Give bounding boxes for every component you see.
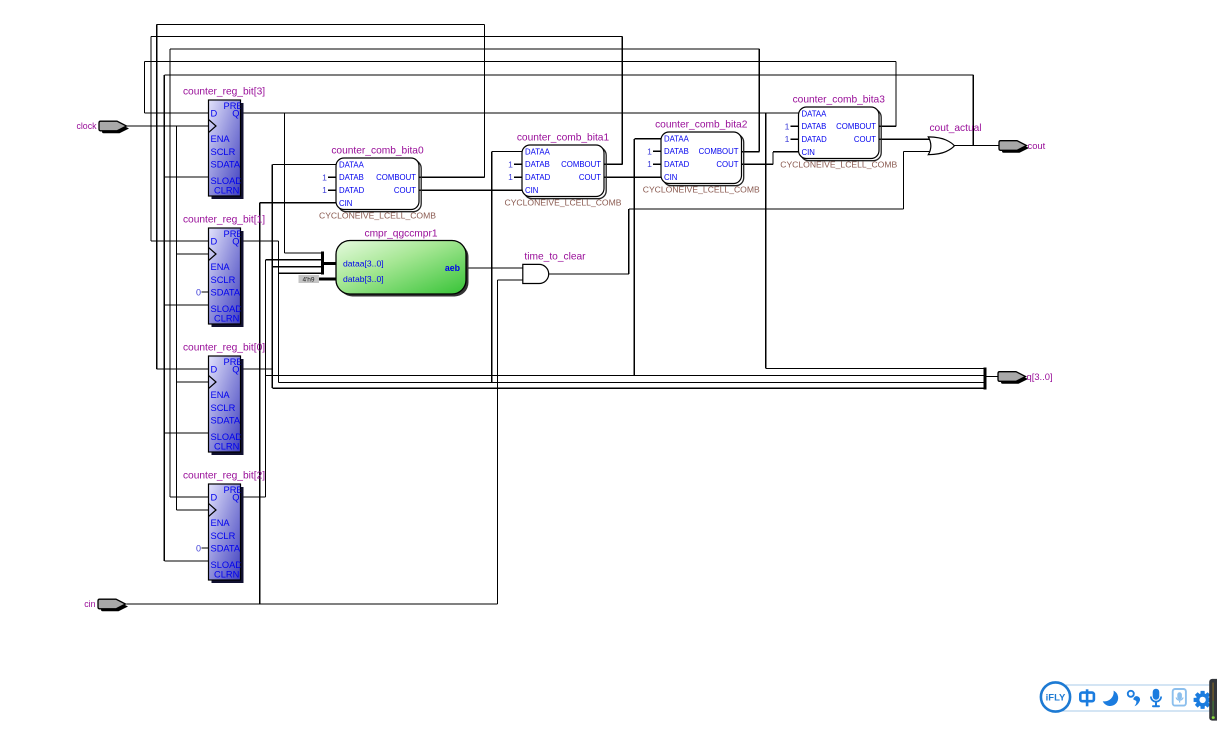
wire reg0 Q xyxy=(241,368,273,370)
svg-text:1: 1 xyxy=(322,185,327,195)
svg-text:SLOAD: SLOAD xyxy=(211,304,243,314)
svg-text:CLRN: CLRN xyxy=(214,442,239,452)
svg-text:DATAA: DATAA xyxy=(525,147,551,156)
svg-text:Q: Q xyxy=(232,237,239,247)
wire reg3 Q to cmpr bus xyxy=(285,252,323,254)
svg-text:Q: Q xyxy=(232,365,239,375)
icon moon xyxy=(1103,691,1118,706)
svg-text:counter_reg_bit[1]: counter_reg_bit[1] xyxy=(183,215,265,226)
svg-text:SLOAD: SLOAD xyxy=(211,432,243,442)
icon microphone xyxy=(1150,689,1162,708)
svg-text:ENA: ENA xyxy=(211,134,231,144)
volume meter bar xyxy=(1209,679,1217,721)
svg-text:COMBOUT: COMBOUT xyxy=(836,122,876,131)
wire reg1 Q xyxy=(241,240,279,242)
register counter_reg_bit[1] xyxy=(209,228,244,327)
wire reg0 D rail xyxy=(156,25,158,370)
LCELL block counter_comb_bita3 xyxy=(799,107,882,161)
wire clock rail xyxy=(176,126,178,510)
wire clock to reg1 xyxy=(177,253,209,255)
svg-text:4'h9: 4'h9 xyxy=(302,276,314,283)
svg-text:CYCLONEIVE_LCELL_COMB: CYCLONEIVE_LCELL_COMB xyxy=(780,160,897,170)
wire q pin stub xyxy=(985,376,998,378)
wire clock to reg0 xyxy=(177,381,209,383)
wire and out run xyxy=(629,208,904,210)
svg-text:counter_reg_bit[3]: counter_reg_bit[3] xyxy=(183,87,265,98)
svg-text:1: 1 xyxy=(322,172,327,182)
svg-text:DATAB: DATAB xyxy=(339,173,364,182)
svg-text:CYCLONEIVE_LCELL_COMB: CYCLONEIVE_LCELL_COMB xyxy=(643,185,760,195)
svg-text:q[3..0]: q[3..0] xyxy=(1027,371,1053,382)
wire reg0 Q to cmpr bus xyxy=(272,266,322,268)
svg-text:CIN: CIN xyxy=(664,173,677,182)
wire feedback C drop xyxy=(758,49,760,152)
wire q line 0 xyxy=(272,387,985,389)
svg-text:DATAD: DATAD xyxy=(664,160,690,169)
svg-text:DATAB: DATAB xyxy=(664,147,689,156)
LCELL block counter_comb_bita0 xyxy=(336,158,421,212)
svg-text:aeb: aeb xyxy=(445,263,461,273)
svg-text:counter_comb_bita0: counter_comb_bita0 xyxy=(331,146,424,157)
LCELL block counter_comb_bita2 xyxy=(661,132,744,186)
input pin clock xyxy=(99,121,129,133)
wire feedback C top xyxy=(170,48,759,50)
svg-text:1: 1 xyxy=(785,121,790,131)
wire feedback D top xyxy=(145,61,897,63)
wire or out to cout pin xyxy=(954,145,999,147)
svg-text:dataa[3..0]: dataa[3..0] xyxy=(343,258,384,268)
wire feedback B top xyxy=(151,36,622,38)
svg-text:CLRN: CLRN xyxy=(214,186,239,196)
iFLY logo xyxy=(1041,682,1070,711)
wire q line 1 xyxy=(279,382,986,384)
svg-text:SCLR: SCLR xyxy=(211,275,236,285)
svg-text:CLRN: CLRN xyxy=(214,570,239,580)
svg-text:COMBOUT: COMBOUT xyxy=(561,160,601,169)
svg-text:CYCLONEIVE_LCELL_COMB: CYCLONEIVE_LCELL_COMB xyxy=(319,211,436,221)
svg-text:cmpr_qgccmpr1: cmpr_qgccmpr1 xyxy=(364,229,437,240)
svg-text:D: D xyxy=(211,365,218,375)
wire reg1 Q to cmpr bus xyxy=(279,272,323,274)
svg-text:counter_comb_bita3: counter_comb_bita3 xyxy=(793,95,886,106)
LCELL block counter_comb_bita1 xyxy=(522,145,606,199)
svg-text:counter_comb_bita1: counter_comb_bita1 xyxy=(517,133,610,144)
wire bita3 COUT to or in1 xyxy=(879,138,930,140)
comparator cmpr_qgccmpr1 xyxy=(336,241,469,297)
wire clock pin to reg3 clk xyxy=(126,125,209,127)
wire reg3 D xyxy=(145,112,209,114)
svg-text:time_to_clear: time_to_clear xyxy=(524,252,586,263)
svg-text:CIN: CIN xyxy=(525,186,538,195)
wire bita3 combout stub xyxy=(879,125,896,127)
wire and out rise2 xyxy=(903,152,905,210)
wire bita2 COUT stub xyxy=(742,163,774,165)
wire cmpr bus bar xyxy=(321,252,324,275)
AND gate time_to_clear xyxy=(523,264,549,283)
wire and out rise xyxy=(628,209,630,274)
svg-text:COUT: COUT xyxy=(394,186,416,195)
icon zh 中 xyxy=(1080,689,1094,706)
wire datab bus stub xyxy=(319,278,336,281)
svg-text:counter_reg_bit[2]: counter_reg_bit[2] xyxy=(183,471,265,482)
wire feedback D drop xyxy=(895,62,897,127)
svg-text:SDATA: SDATA xyxy=(211,416,241,426)
input pin cin xyxy=(98,599,128,611)
wire reg1 Q rail xyxy=(278,241,280,383)
svg-text:cout_actual: cout_actual xyxy=(929,123,981,134)
svg-text:COUT: COUT xyxy=(854,135,876,144)
wire sload reg3 xyxy=(164,176,208,178)
svg-text:ENA: ENA xyxy=(211,262,231,272)
OR gate cout_actual xyxy=(928,137,954,155)
wire reg0 D xyxy=(157,368,209,370)
wire sload rail xyxy=(163,75,165,561)
svg-text:ENA: ENA xyxy=(211,390,231,400)
svg-text:cin: cin xyxy=(84,599,95,609)
wire reg1 Q rise to bita1 xyxy=(491,152,493,383)
wire sload feedback drop xyxy=(972,75,974,146)
wire dataa bus stub xyxy=(323,262,336,265)
wire bita0 CIN stub xyxy=(260,202,336,204)
svg-text:counter_comb_bita2: counter_comb_bita2 xyxy=(655,120,748,131)
wire sload reg2 xyxy=(164,560,208,562)
wire or in2 stub xyxy=(904,151,930,153)
wire cin line xyxy=(127,603,498,605)
icon tablet-mic xyxy=(1173,689,1186,706)
wire q line 3 xyxy=(766,368,985,370)
svg-text:DATAD: DATAD xyxy=(525,173,551,182)
svg-text:SDATA: SDATA xyxy=(211,544,241,554)
wire and in2 stub xyxy=(498,279,523,281)
wire feedback B drop xyxy=(621,37,623,165)
wire sload feedback top xyxy=(164,74,973,76)
svg-text:clock: clock xyxy=(76,121,97,131)
svg-text:COUT: COUT xyxy=(579,173,601,182)
wire bita0 DATAA stub xyxy=(272,164,336,166)
svg-text:CIN: CIN xyxy=(339,199,352,208)
wire reg2 D rail xyxy=(169,49,171,497)
svg-text:COMBOUT: COMBOUT xyxy=(376,173,416,182)
wire carry jog xyxy=(772,152,774,165)
svg-text:SDATA: SDATA xyxy=(211,160,241,170)
svg-text:DATAA: DATAA xyxy=(664,134,690,143)
wire bita2 combout stub xyxy=(742,151,760,153)
wire bita1 combout stub xyxy=(604,163,622,165)
wire reg1 D rail xyxy=(150,37,152,242)
svg-text:D: D xyxy=(211,493,218,503)
output pin q[3..0] xyxy=(998,372,1028,384)
wire reg3 Q drop to qbus xyxy=(765,113,767,369)
svg-text:1: 1 xyxy=(508,172,513,182)
svg-text:Q: Q xyxy=(232,109,239,119)
svg-text:SCLR: SCLR xyxy=(211,531,236,541)
icon punctuation xyxy=(1128,691,1140,707)
svg-text:datab[3..0]: datab[3..0] xyxy=(343,274,384,284)
svg-text:DATAA: DATAA xyxy=(802,109,828,118)
wire sload reg0 xyxy=(164,432,208,434)
wire reg2 Q xyxy=(241,496,266,498)
wire bita3 CIN stub xyxy=(773,151,799,153)
svg-text:CIN: CIN xyxy=(802,148,815,157)
svg-text:COUT: COUT xyxy=(716,160,738,169)
wire feedback A drop xyxy=(484,25,486,178)
wire bita1 COUT to bita2 CIN xyxy=(604,176,661,178)
svg-text:SCLR: SCLR xyxy=(211,147,236,157)
wire bita0 COUT to bita1 CIN xyxy=(419,189,522,191)
wire clock to reg2 xyxy=(177,509,209,511)
svg-text:CYCLONEIVE_LCELL_COMB: CYCLONEIVE_LCELL_COMB xyxy=(504,198,621,208)
svg-text:iFLY: iFLY xyxy=(1046,693,1066,704)
wire reg0 Q rail xyxy=(271,165,273,389)
wire reg2 D xyxy=(170,496,209,498)
iFLY input-method toolbar xyxy=(1041,682,1213,711)
svg-text:DATAB: DATAB xyxy=(525,160,550,169)
wire bita2 DATAA stub xyxy=(634,138,661,140)
wire reg2 Q rise to bita2 xyxy=(633,139,635,376)
svg-text:SCLR: SCLR xyxy=(211,403,236,413)
wire cin rise to and xyxy=(497,280,499,604)
wire reg3 D rail xyxy=(144,62,146,114)
svg-text:SDATA: SDATA xyxy=(211,288,241,298)
svg-text:0: 0 xyxy=(196,288,201,298)
wire q bus bar xyxy=(984,367,987,389)
svg-text:1: 1 xyxy=(647,146,652,156)
register counter_reg_bit[2] xyxy=(209,484,244,583)
svg-text:COMBOUT: COMBOUT xyxy=(699,147,739,156)
output pin cout xyxy=(999,141,1029,153)
svg-text:1: 1 xyxy=(508,159,513,169)
svg-text:0: 0 xyxy=(196,544,201,554)
constant 4h9 to datab xyxy=(299,275,320,283)
wire bita0 combout stub xyxy=(419,176,485,178)
wire aeb to and in1 xyxy=(466,267,523,269)
register counter_reg_bit[3] xyxy=(209,100,244,199)
svg-text:1: 1 xyxy=(647,159,652,169)
svg-text:DATAB: DATAB xyxy=(802,122,827,131)
svg-text:CLRN: CLRN xyxy=(214,314,239,324)
wire reg1 D xyxy=(151,240,209,242)
wire reg2 Q rail xyxy=(265,260,267,497)
wire cin rise to bita0 CIN xyxy=(259,203,261,604)
svg-text:SLOAD: SLOAD xyxy=(211,176,243,186)
svg-text:SLOAD: SLOAD xyxy=(211,560,243,570)
svg-text:cout: cout xyxy=(1028,140,1046,151)
wire reg3 Q to bita3 DATAA xyxy=(241,112,799,114)
svg-text:counter_reg_bit[0]: counter_reg_bit[0] xyxy=(183,343,265,354)
svg-text:1: 1 xyxy=(785,134,790,144)
wire feedback A top xyxy=(157,24,485,26)
wire sload reg1 xyxy=(164,304,208,306)
wire reg2 Q to cmpr bus xyxy=(266,259,323,261)
svg-text:DATAD: DATAD xyxy=(339,186,365,195)
wire bita1 DATAA stub xyxy=(492,151,522,153)
wire reg3 Q drop to cmpr xyxy=(284,113,286,253)
svg-text:Q: Q xyxy=(232,493,239,503)
svg-text:D: D xyxy=(211,109,218,119)
wire and out xyxy=(549,273,629,275)
svg-text:D: D xyxy=(211,237,218,247)
wire q line 2 xyxy=(266,375,986,377)
register counter_reg_bit[0] xyxy=(209,356,244,455)
svg-text:DATAA: DATAA xyxy=(339,160,365,169)
svg-text:DATAD: DATAD xyxy=(802,135,828,144)
svg-text:ENA: ENA xyxy=(211,518,231,528)
icon gear xyxy=(1194,691,1212,709)
